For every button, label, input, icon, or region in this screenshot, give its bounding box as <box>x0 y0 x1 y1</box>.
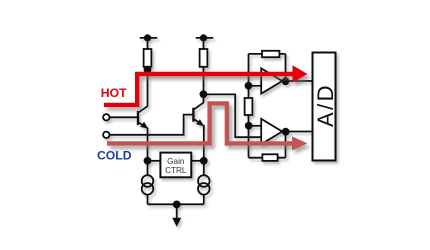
wire gain box to emitter Q2 <box>191 160 204 162</box>
wire U1 feedback top <box>249 54 286 81</box>
svg-text:Gain: Gain <box>167 157 185 166</box>
input terminal IN1 <box>103 114 109 120</box>
node dot collector Q2 <box>200 90 208 98</box>
current source I2 <box>198 161 210 205</box>
A/D converter block <box>313 53 336 161</box>
node dot U2 inverting input <box>245 122 253 130</box>
svg-text:HOT: HOT <box>101 86 127 100</box>
op-amp U1 <box>261 68 282 93</box>
supply rail symbol V1 (left) <box>140 34 158 49</box>
wire IN1 to base Q1 <box>110 116 138 118</box>
wire U2 output to A/D <box>281 131 313 133</box>
resistor R3 (between inputs) <box>245 98 253 115</box>
wire R2 to collector node Q2 <box>203 67 205 95</box>
transistor Q1 <box>138 72 148 161</box>
negative supply arrow <box>172 204 181 226</box>
cold signal path highlight <box>107 103 292 143</box>
node dot U1 output <box>282 77 290 85</box>
wire middle resistor chain <box>248 54 250 158</box>
wire tail rail <box>148 203 204 205</box>
node dot tail <box>173 201 181 209</box>
wire collector Q2 to opamp U2 input <box>203 94 261 137</box>
resistor R2 (top right load) <box>200 49 208 67</box>
node dot R1/collector Q1 <box>144 66 152 74</box>
node dot emitter Q2 <box>200 157 208 165</box>
wire U1 output to A/D <box>281 80 313 82</box>
node dot U2 output <box>282 128 290 136</box>
input terminal IN2 <box>103 132 109 138</box>
hot path arrowhead <box>293 65 308 83</box>
cold path arrowhead <box>292 136 307 150</box>
node dot U1 inverting input <box>245 82 253 90</box>
supply rail symbol V2 (right) <box>196 34 214 49</box>
op-amp U2 <box>261 119 282 144</box>
current source I1 <box>142 161 154 205</box>
transistor Q2 <box>193 97 204 161</box>
svg-text:A/D: A/D <box>313 83 338 127</box>
wire hot net horizontal <box>148 73 262 75</box>
svg-text:CTRL: CTRL <box>165 166 187 175</box>
resistor R5 (U2 feedback) <box>262 154 277 161</box>
resistor R4 (U1 feedback) <box>262 51 279 57</box>
wire R1 to node <box>147 67 149 74</box>
wire U2 feedback bottom <box>249 132 286 158</box>
wire to U1 input <box>249 85 262 87</box>
wire to U2 input <box>249 125 262 127</box>
node dot emitter Q1 <box>144 157 152 165</box>
wire emitter Q1 to gain box <box>148 160 161 162</box>
resistor R1 (top left load) <box>144 49 152 67</box>
gain control box <box>160 153 191 178</box>
svg-text:COLD: COLD <box>97 148 132 162</box>
wire IN2 to base Q2 <box>110 115 193 135</box>
hot signal path highlight <box>104 74 293 105</box>
